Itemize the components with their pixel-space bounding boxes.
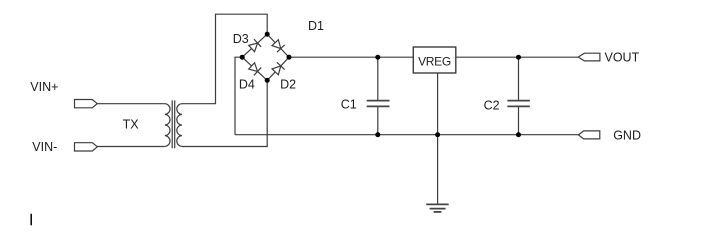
connector VIN+	[75, 100, 98, 108]
node left vertex	[240, 55, 245, 60]
node C1 bottom	[375, 132, 380, 137]
svg-text:GND: GND	[613, 129, 641, 143]
wire bridge right vertex to VREG input	[289, 56, 413, 58]
svg-text:VIN+: VIN+	[30, 80, 58, 94]
wire secondary top to bridge top vertex	[182, 14, 267, 104]
text cursor mark	[30, 214, 32, 226]
svg-text:VOUT: VOUT	[605, 50, 640, 64]
ground	[426, 204, 449, 212]
wire C1 branch	[377, 57, 379, 135]
wire VIN- to transformer primary bottom	[97, 146, 164, 148]
svg-text:C2: C2	[484, 99, 500, 113]
svg-text:D4: D4	[239, 78, 255, 92]
diode D2	[271, 62, 284, 75]
node C2 bottom	[516, 132, 521, 137]
wire ground rail	[235, 134, 578, 136]
svg-text:VREG: VREG	[418, 54, 451, 68]
regulator U1 VREG	[413, 47, 456, 73]
capacitor C1	[367, 101, 390, 107]
wire VREG output to VOUT	[456, 56, 578, 58]
wire VIN+ to transformer primary top	[97, 103, 165, 105]
svg-text:VIN-: VIN-	[32, 140, 57, 154]
node top vertex	[265, 32, 270, 37]
wire bridge edges	[242, 34, 289, 80]
svg-text:TX: TX	[123, 117, 140, 131]
svg-text:D1: D1	[308, 19, 324, 33]
svg-text:D3: D3	[233, 32, 249, 46]
connector VIN-	[75, 143, 98, 151]
transformer TX	[165, 100, 182, 148]
wire VREG ground pin	[437, 73, 439, 204]
connector VOUT	[578, 53, 600, 61]
diode D4	[248, 62, 261, 75]
node right vertex	[287, 55, 292, 60]
node C2 top	[516, 55, 521, 60]
capacitor C2	[507, 101, 529, 107]
node VREG ground pin	[435, 132, 440, 137]
diode D1	[271, 39, 284, 52]
node C1 top	[375, 55, 380, 60]
node bottom vertex	[265, 78, 270, 83]
wire bridge left vertex down to ground rail	[235, 57, 242, 135]
diode D3	[248, 39, 261, 52]
wire secondary bottom to bridge bottom vertex	[182, 80, 267, 146]
svg-text:D2: D2	[280, 78, 296, 92]
connector GND	[578, 131, 599, 139]
wire C2 branch	[518, 57, 520, 135]
svg-text:C1: C1	[341, 98, 357, 112]
